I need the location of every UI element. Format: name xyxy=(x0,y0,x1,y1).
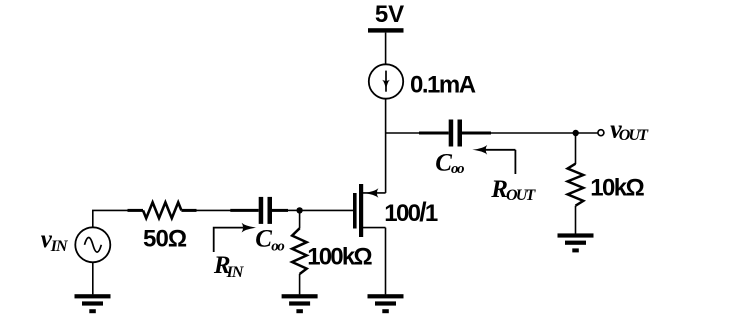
arrow R_IN xyxy=(214,223,257,252)
svg-text:5V: 5V xyxy=(375,1,404,28)
capacitor C_oo (output) xyxy=(419,120,491,147)
label v_IN xyxy=(41,226,69,255)
ground (under 10k) xyxy=(558,233,594,252)
svg-text:100/1: 100/1 xyxy=(384,197,438,227)
wire: junction down to 100k xyxy=(299,210,301,228)
wire: 5V bar to current source xyxy=(385,33,387,65)
svg-text:IN: IN xyxy=(226,264,245,281)
svg-text:50Ω: 50Ω xyxy=(143,226,187,253)
wire: 10k to ground xyxy=(575,206,577,234)
label C_oo (input) xyxy=(255,225,284,254)
source V_IN (ac) xyxy=(75,227,110,262)
wire: junction to terminal xyxy=(576,132,598,134)
arrow R_OUT xyxy=(472,145,515,174)
wire: junction to gate xyxy=(300,209,353,211)
drain lead with arrow xyxy=(363,192,386,194)
gate bar xyxy=(353,193,357,229)
channel bar xyxy=(359,184,363,237)
capacitor C_oo (input) xyxy=(230,197,288,224)
source lead xyxy=(363,227,386,229)
wire: 50 Ohm to input cap xyxy=(197,209,232,211)
terminal v_OUT open circle xyxy=(598,130,604,136)
transistor M1 xyxy=(353,184,386,294)
svg-text:oo: oo xyxy=(271,238,284,254)
ground (under transistor) xyxy=(368,294,404,313)
current source I1 0.1mA xyxy=(369,64,403,98)
svg-text:C: C xyxy=(435,150,452,177)
svg-text:OUT: OUT xyxy=(619,127,650,144)
label R_OUT xyxy=(490,176,536,204)
svg-text:0.1mA: 0.1mA xyxy=(410,71,476,98)
ground (under v_IN) xyxy=(75,294,111,313)
svg-text:10kΩ: 10kΩ xyxy=(590,175,644,202)
wire: current source to drain node and down to transistor xyxy=(385,99,387,193)
wire: 100k to ground xyxy=(299,274,301,294)
label C_oo (output) xyxy=(435,150,464,177)
svg-text:C: C xyxy=(255,225,272,252)
resistor 100k xyxy=(292,228,307,274)
wire: cap to junction xyxy=(288,209,300,211)
resistor 10k xyxy=(568,164,584,206)
svg-text:OUT: OUT xyxy=(506,187,537,204)
svg-text:IN: IN xyxy=(50,238,69,255)
wire: source bottom to ground xyxy=(92,262,94,294)
wire: node to output capacitor xyxy=(386,132,420,134)
label v_OUT xyxy=(610,114,649,144)
resistor 50 Ohm xyxy=(128,202,197,218)
node: gate junction dot xyxy=(296,207,302,213)
label R_IN xyxy=(213,252,245,281)
node: output junction dot xyxy=(573,130,579,136)
wire: source top to main wire xyxy=(93,210,128,227)
svg-text:oo: oo xyxy=(451,161,464,177)
supply rail 5V bar xyxy=(368,28,404,32)
ground (under 100k) xyxy=(282,294,318,313)
wire: capacitor to output node xyxy=(491,132,576,134)
wire: junction down to 10k resistor xyxy=(575,133,577,164)
svg-text:100kΩ: 100kΩ xyxy=(307,244,372,271)
